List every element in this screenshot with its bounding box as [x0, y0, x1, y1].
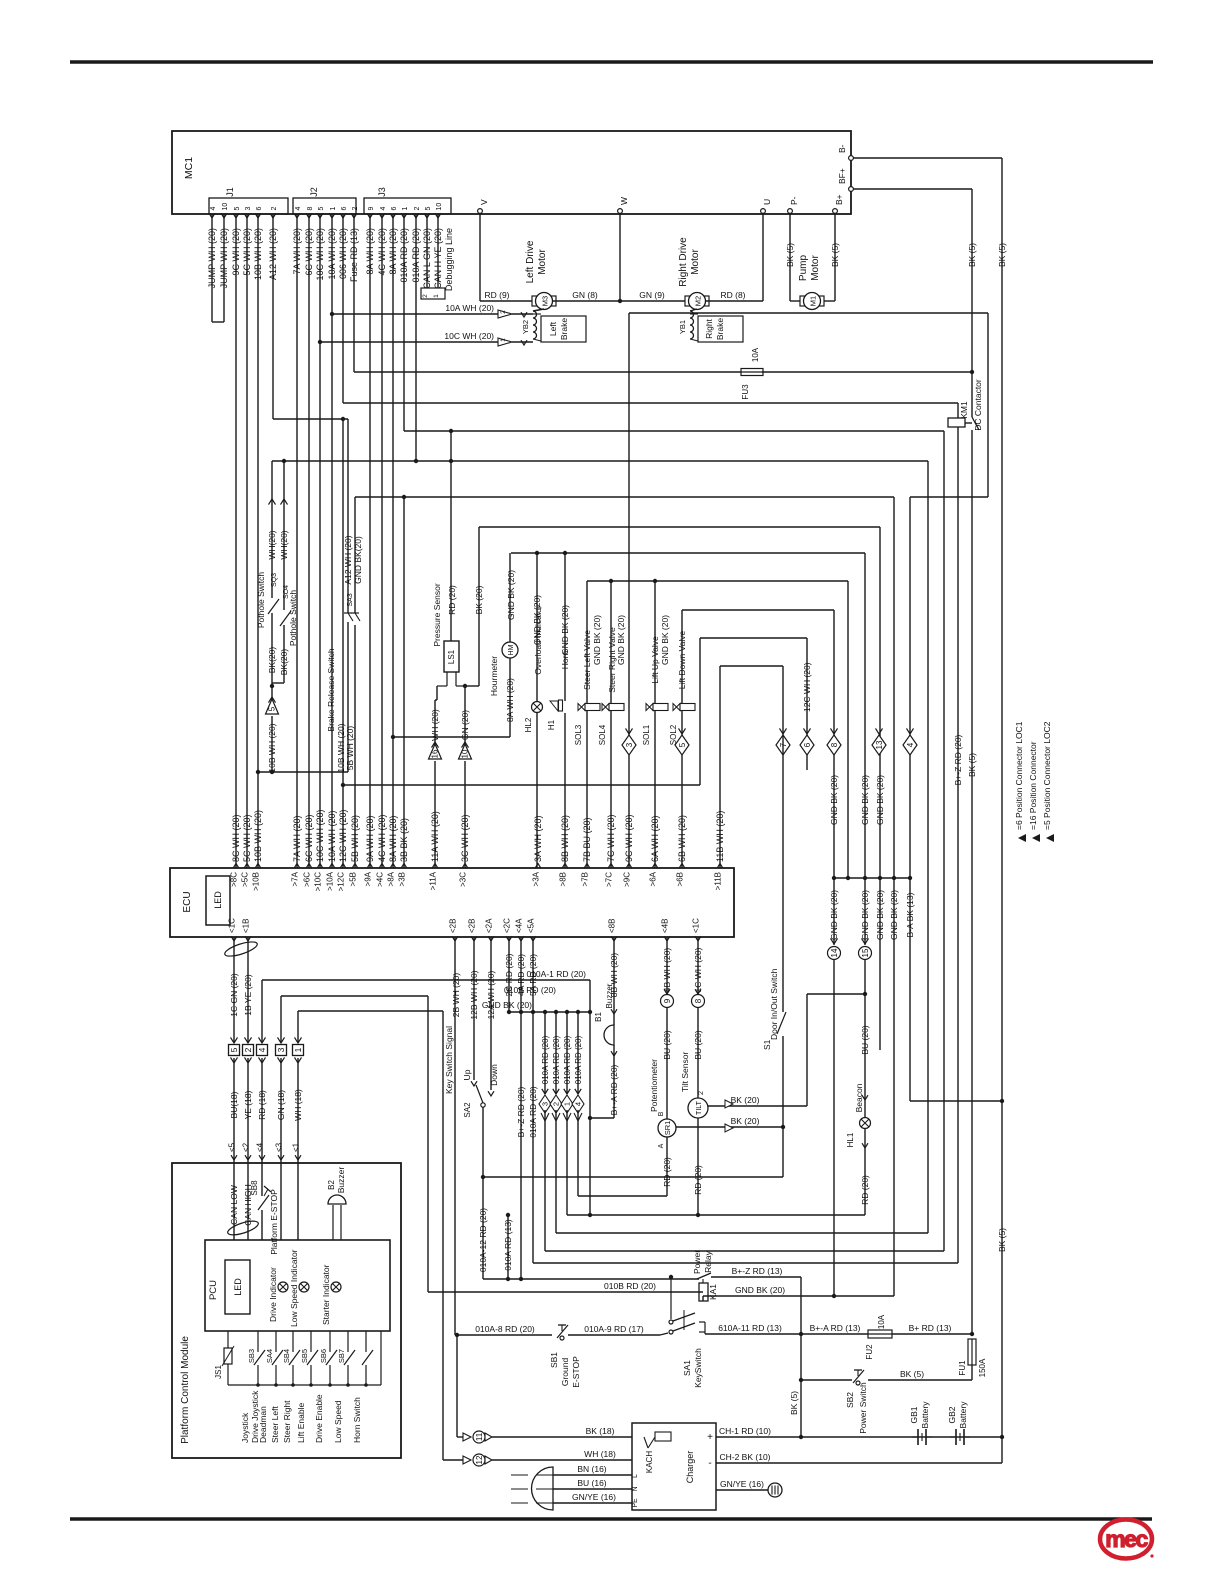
- wire 7A WH (20): [296, 214, 298, 868]
- wire BK (20) to LS1: [478, 527, 480, 686]
- svg-text:BK (5): BK (5): [789, 1391, 799, 1415]
- svg-text:BU (16): BU (16): [577, 1478, 606, 1488]
- svg-text:Left: Left: [548, 321, 558, 336]
- wire CAN H YE (20): [437, 214, 439, 288]
- wire U terminal: [762, 214, 764, 301]
- svg-text:mec: mec: [1105, 1526, 1148, 1552]
- J1 pins: [209, 213, 215, 218]
- left brake YB2 coil: [533, 311, 537, 339]
- wire 10C WH (20) to brake conn 1: [320, 341, 498, 343]
- svg-text:>7B: >7B: [581, 872, 590, 886]
- wire P- to M1: [789, 214, 791, 301]
- wire 010A RD (20) J3-1: [403, 214, 405, 431]
- J2 pins: [294, 213, 300, 218]
- connector 7: [776, 735, 790, 755]
- svg-text:>6B: >6B: [676, 872, 685, 886]
- svg-text:10B WH (20): 10B WH (20): [267, 723, 277, 772]
- ECU top pins: [233, 864, 239, 869]
- connector 15: [864, 878, 866, 945]
- wire GND BK (20) to PCM: [298, 1010, 443, 1012]
- svg-text:<8B: <8B: [608, 919, 617, 933]
- svg-text:>10C: >10C: [314, 872, 323, 892]
- wire BF+ BK(5): [853, 188, 972, 190]
- svg-text:Battery: Battery: [958, 1401, 968, 1429]
- svg-text:GND BK (20): GND BK (20): [860, 890, 870, 940]
- svg-text:SOL3: SOL3: [574, 724, 583, 745]
- svg-text:<2A: <2A: [485, 918, 494, 933]
- square connectors 5 2 4 3 1: [229, 1045, 240, 1056]
- svg-text:>9C: >9C: [623, 872, 632, 887]
- wire conn6 to beacon: [807, 993, 865, 995]
- svg-text:CH-2 BK (10): CH-2 BK (10): [719, 1452, 770, 1462]
- svg-text:3: 3: [276, 1047, 286, 1052]
- svg-text:HM: HM: [508, 644, 515, 655]
- svg-text:>4C: >4C: [376, 872, 385, 887]
- svg-text:GN/YE (16): GN/YE (16): [720, 1479, 764, 1489]
- wire 006 WH to B+Z: [343, 402, 958, 404]
- svg-text:4: 4: [210, 207, 217, 211]
- key switch signal to SB1: [455, 1334, 552, 1336]
- wire 010A-1 RD (20): [262, 979, 590, 981]
- connector 11: [456, 1335, 458, 1437]
- platform switches: [257, 1331, 259, 1352]
- svg-text:LED: LED: [213, 891, 223, 909]
- wire return conn3 run: [544, 1110, 546, 1251]
- svg-text:BK (20): BK (20): [731, 1095, 760, 1105]
- wire 10A WH (20): [331, 214, 333, 868]
- MC1 terminal V: [478, 209, 483, 214]
- svg-text:BK (20): BK (20): [731, 1116, 760, 1126]
- wire 010B RD to KA1 coil: [428, 1291, 703, 1293]
- svg-text:Starter Indicator: Starter Indicator: [321, 1264, 331, 1325]
- svg-text:GND BK (20): GND BK (20): [532, 595, 542, 645]
- svg-text:A12 WH (20): A12 WH (20): [343, 535, 353, 584]
- left drive motor M3: [532, 296, 556, 306]
- svg-text:3C WH (20): 3C WH (20): [460, 814, 470, 862]
- svg-text:E-STOP: E-STOP: [571, 1356, 581, 1388]
- switch SA2 up/down: [473, 937, 475, 1080]
- svg-text:B+-Z RD (20): B+-Z RD (20): [953, 734, 963, 785]
- wire W terminal: [619, 214, 621, 301]
- svg-text:KA1: KA1: [708, 1284, 718, 1300]
- pothole switch SQ4: [283, 461, 285, 610]
- svg-text:8: 8: [830, 742, 839, 747]
- wire 010A-12 RD (20): [482, 1177, 484, 1279]
- svg-text:SB7: SB7: [337, 1349, 346, 1363]
- svg-text:U: U: [762, 199, 772, 205]
- wire 1C GN (20): [233, 937, 235, 1042]
- wire 6C WH (20): [308, 214, 310, 868]
- svg-text:Power: Power: [692, 1250, 702, 1274]
- wire 12C WH (20): [342, 419, 344, 868]
- wire CAN L GN (20): [426, 214, 428, 288]
- wire 3B BK (20): [403, 497, 405, 868]
- svg-text:Low Speed Indicator: Low Speed Indicator: [289, 1249, 299, 1327]
- svg-text:2: 2: [243, 1047, 253, 1052]
- svg-text:J2: J2: [309, 187, 319, 197]
- connector 13: [872, 735, 886, 755]
- wire KA1 coil top: [702, 1279, 704, 1283]
- svg-text:3: 3: [625, 742, 634, 747]
- svg-text:B+-Z RD (20): B+-Z RD (20): [516, 1086, 526, 1137]
- svg-text:<2B: <2B: [449, 919, 458, 933]
- connector 14: [833, 878, 835, 945]
- wire GND bus hourmeter row: [511, 552, 865, 554]
- wire 8A WH (20): [392, 214, 394, 868]
- svg-text:Low Speed: Low Speed: [333, 1400, 343, 1443]
- connector 4 right: [903, 735, 917, 755]
- svg-text:>12C: >12C: [337, 872, 346, 892]
- svg-text:Steer Right: Steer Right: [282, 1400, 292, 1443]
- svg-text:HL2: HL2: [524, 717, 533, 732]
- horn switch column: [365, 1331, 367, 1352]
- svg-text:10: 10: [461, 749, 470, 758]
- svg-text:BK(20): BK(20): [279, 649, 289, 676]
- svg-text:SB1: SB1: [549, 1352, 559, 1368]
- svg-text:M2: M2: [694, 296, 703, 306]
- wire A12 WH (20): [272, 214, 274, 419]
- svg-text:V: V: [479, 199, 489, 205]
- svg-text:5: 5: [425, 207, 432, 211]
- svg-text:12B WH (20): 12B WH (20): [469, 970, 479, 1019]
- wire BK (20) LS1 run: [479, 526, 880, 528]
- svg-text:LED: LED: [233, 1278, 243, 1296]
- svg-text:9C WH (20): 9C WH (20): [624, 814, 634, 862]
- svg-text:5: 5: [268, 706, 277, 711]
- MEC logo: [1100, 1520, 1152, 1559]
- svg-text:GND BK (20): GND BK (20): [560, 605, 570, 655]
- ECU LED box: [206, 876, 230, 925]
- svg-text:6: 6: [391, 207, 398, 211]
- svg-text:3: 3: [245, 207, 252, 211]
- connector 12: [442, 1454, 444, 1460]
- wire 5C WH (20): [246, 214, 248, 868]
- svg-text:Motor: Motor: [810, 255, 821, 281]
- wire SR1 BK (20): [676, 1126, 783, 1128]
- wire WH to PCU: [297, 1163, 299, 1240]
- svg-text:FU3: FU3: [741, 384, 750, 400]
- svg-text:KACH: KACH: [645, 1451, 654, 1473]
- wire B- BK(5): [853, 157, 1002, 159]
- svg-text:>3C: >3C: [459, 872, 468, 887]
- wire 010B RD (20): [281, 995, 428, 997]
- svg-text:6C WH (20): 6C WH (20): [304, 814, 314, 862]
- svg-text:<1C: <1C: [692, 918, 701, 933]
- svg-text:1B YE (20): 1B YE (20): [243, 974, 253, 1016]
- wire 4A RD (20): [520, 937, 522, 1279]
- svg-text:HL1: HL1: [846, 1132, 855, 1147]
- svg-text:9A WH (20): 9A WH (20): [365, 815, 375, 862]
- svg-text:3A WH (20): 3A WH (20): [533, 815, 543, 862]
- svg-text:Pothole Switch: Pothole Switch: [256, 572, 266, 628]
- svg-text:Brake: Brake: [715, 318, 725, 340]
- fuse FU3 10A: [741, 369, 763, 376]
- svg-text:RD (18): RD (18): [257, 1090, 267, 1120]
- svg-text:BK (20): BK (20): [474, 585, 484, 614]
- svg-text:GND BK (20): GND BK (20): [875, 775, 885, 825]
- beacon HL1: [864, 959, 866, 1118]
- svg-text:SQ3: SQ3: [271, 573, 278, 587]
- svg-text:M3: M3: [541, 296, 550, 306]
- svg-text:BK (5): BK (5): [830, 243, 840, 267]
- svg-text:2C RD (20): 2C RD (20): [504, 953, 514, 996]
- wire 2C RD (20): [508, 937, 510, 1012]
- wire GN(9) W to M2: [620, 300, 688, 302]
- svg-text:J3: J3: [377, 187, 387, 197]
- svg-text:Battery: Battery: [920, 1401, 930, 1429]
- svg-text:10A WH (20): 10A WH (20): [445, 303, 494, 313]
- svg-text:SB3: SB3: [247, 1349, 256, 1363]
- wire 1B YE (20): [247, 937, 249, 1042]
- svg-text:15: 15: [861, 948, 870, 957]
- svg-text:010B RD (20): 010B RD (20): [604, 1281, 656, 1291]
- wire return conn4 to SR1: [577, 1110, 579, 1196]
- svg-text:=5 Position Connector LOC2: =5 Position Connector LOC2: [1042, 721, 1052, 830]
- svg-text:J1: J1: [225, 187, 235, 197]
- svg-text:10C WH (20): 10C WH (20): [444, 331, 494, 341]
- svg-text:Right Drive: Right Drive: [678, 237, 689, 287]
- svg-text:H1: H1: [547, 719, 556, 730]
- svg-text:FU2: FU2: [865, 1344, 874, 1360]
- svg-text:4A RD (20): 4A RD (20): [516, 954, 526, 996]
- wire 2B WH key switch signal: [454, 937, 456, 1335]
- svg-text:PE: PE: [632, 1498, 639, 1508]
- svg-text:GND BK (20): GND BK (20): [616, 615, 626, 665]
- svg-text:Tilt Sensor: Tilt Sensor: [680, 1052, 690, 1092]
- svg-text:010A-8 RD (20): 010A-8 RD (20): [475, 1324, 535, 1334]
- svg-text:MC1: MC1: [183, 157, 195, 179]
- svg-text:GND BK (20): GND BK (20): [660, 615, 670, 665]
- wire 010A RD run 2: [272, 460, 928, 462]
- svg-text:7B BU (20): 7B BU (20): [582, 817, 592, 862]
- wire 10B WH (20): [257, 214, 259, 868]
- wire 006 WH (20): [342, 214, 344, 403]
- svg-text:4B WH (20): 4B WH (20): [662, 948, 672, 993]
- fuse FU2 10A: [868, 1330, 892, 1338]
- wire 010A RD run 1: [404, 430, 944, 432]
- wire return conn2 run: [555, 1110, 557, 1233]
- wire GN(8) M3 to W: [553, 300, 620, 302]
- harness wires to platform: [233, 1058, 235, 1163]
- svg-text:SOL1: SOL1: [642, 724, 651, 745]
- svg-text:010A RD (20): 010A RD (20): [541, 1035, 550, 1084]
- svg-text:Steer Left: Steer Left: [270, 1406, 280, 1443]
- wire horizontal 1215: [567, 1214, 865, 1216]
- svg-text:-: -: [708, 1458, 711, 1469]
- svg-text:9: 9: [368, 207, 375, 211]
- svg-text:>3A: >3A: [532, 871, 541, 886]
- svg-text:GND BK (20): GND BK (20): [829, 775, 839, 825]
- svg-text:PCU: PCU: [208, 1280, 219, 1300]
- wire GND BK 894 to KA1: [893, 878, 895, 1296]
- svg-text:5A RD (20): 5A RD (20): [528, 954, 538, 996]
- svg-text:GND BK (20): GND BK (20): [506, 570, 516, 620]
- svg-text:14: 14: [830, 948, 839, 957]
- wire 9C WH (20): [235, 214, 237, 868]
- svg-text:12: 12: [475, 1455, 484, 1464]
- svg-text:8: 8: [694, 998, 703, 1003]
- svg-text:SOL4: SOL4: [598, 724, 607, 745]
- svg-text:2: 2: [552, 1102, 561, 1106]
- svg-text:010A RD (20): 010A RD (20): [552, 1035, 561, 1084]
- svg-text:Power Switch: Power Switch: [858, 1382, 868, 1434]
- svg-text:W: W: [619, 197, 629, 205]
- wire B+ RD (13): [892, 1333, 972, 1335]
- connector J3: [364, 198, 451, 214]
- svg-text:>11B: >11B: [714, 872, 723, 890]
- charger box: [632, 1423, 716, 1510]
- wire 11B to door switch: [719, 666, 721, 868]
- svg-text:Platform E-STOP: Platform E-STOP: [269, 1189, 279, 1255]
- svg-text:CAN LOW: CAN LOW: [229, 1185, 239, 1225]
- svg-text:10A: 10A: [751, 347, 760, 362]
- svg-text:Buzzer: Buzzer: [336, 1167, 346, 1194]
- svg-text:M1: M1: [809, 296, 818, 306]
- wire RD(8) M2 to U: [706, 300, 763, 302]
- wire GND bus valve row: [587, 580, 848, 582]
- svg-text:SA1: SA1: [682, 1360, 692, 1376]
- wire FU3 fuse feed: [354, 371, 742, 373]
- svg-text:8B WH (20): 8B WH (20): [560, 815, 570, 862]
- svg-text:BU(18): BU(18): [229, 1091, 239, 1118]
- wire return 5A run: [533, 1262, 958, 1264]
- svg-text:KeySwitch: KeySwitch: [693, 1348, 703, 1388]
- svg-text:Brake: Brake: [559, 318, 569, 340]
- debugging line connector: [421, 288, 445, 299]
- wire 10C WH (20): [319, 214, 321, 868]
- svg-text:GND BK(20): GND BK(20): [353, 536, 363, 584]
- branch wires 010A RD with connectors 3 2 1 4: [544, 1012, 546, 1094]
- svg-text:S1: S1: [762, 1039, 772, 1050]
- svg-text:L: L: [632, 1474, 639, 1478]
- svg-text:BK (5): BK (5): [997, 243, 1007, 267]
- svg-text:Potentiometer: Potentiometer: [649, 1059, 659, 1112]
- svg-text:4: 4: [380, 207, 387, 211]
- buzzer B1: [613, 937, 615, 1025]
- svg-text:WH (18): WH (18): [584, 1449, 616, 1459]
- wire B+-A RD (13): [801, 1333, 868, 1335]
- svg-text:GND BK (20): GND BK (20): [829, 890, 839, 940]
- svg-text:Pressure Sensor: Pressure Sensor: [432, 583, 442, 646]
- svg-text:10A WH (20): 10A WH (20): [327, 810, 337, 862]
- platform E-STOP wire: [280, 1163, 282, 1240]
- svg-text:GB2: GB2: [947, 1406, 957, 1423]
- wire horizontal 1177: [483, 1176, 783, 1178]
- svg-text:BK (18): BK (18): [586, 1426, 615, 1436]
- svg-text:B: B: [658, 1111, 665, 1116]
- svg-text:5: 5: [229, 1047, 239, 1052]
- J3 pins: [367, 213, 373, 218]
- svg-text:12C WH (20): 12C WH (20): [338, 809, 348, 862]
- svg-text:Beacon: Beacon: [854, 1083, 864, 1112]
- svg-text:BU (20): BU (20): [693, 1030, 703, 1059]
- svg-text:10: 10: [222, 203, 229, 211]
- svg-text:GB1: GB1: [909, 1406, 919, 1423]
- svg-text:Drive Indicator: Drive Indicator: [268, 1267, 278, 1322]
- svg-text:1: 1: [563, 1102, 572, 1106]
- svg-text:Horn Switch: Horn Switch: [352, 1397, 362, 1443]
- svg-text:3: 3: [541, 1102, 550, 1106]
- svg-text:010A-9 RD (17): 010A-9 RD (17): [584, 1324, 644, 1334]
- svg-text:Joystick: Joystick: [240, 1412, 250, 1443]
- joystick JS1: [227, 1331, 229, 1348]
- svg-text:WH(20): WH(20): [267, 530, 277, 559]
- GND bus lower: [834, 877, 910, 879]
- svg-text:Lift Enable: Lift Enable: [296, 1403, 306, 1443]
- svg-text:9: 9: [663, 998, 672, 1003]
- svg-text:5: 5: [318, 207, 325, 211]
- svg-text:610A-11 RD (13): 610A-11 RD (13): [718, 1323, 782, 1333]
- svg-text:SB6: SB6: [319, 1349, 328, 1363]
- svg-text:Ground: Ground: [560, 1358, 570, 1387]
- charger ground GN/YE: [716, 1489, 768, 1491]
- svg-text:B1: B1: [594, 1012, 603, 1022]
- svg-text:Up: Up: [462, 1069, 472, 1080]
- plug wires: [553, 1474, 632, 1476]
- connector 3 diamond: [628, 313, 630, 735]
- svg-text:FU1: FU1: [958, 1360, 967, 1376]
- svg-text:SB4: SB4: [282, 1349, 291, 1363]
- svg-text:010A-12 RD (20): 010A-12 RD (20): [478, 1208, 488, 1272]
- svg-text:GND BK (20): GND BK (20): [875, 890, 885, 940]
- svg-text:6: 6: [803, 742, 812, 747]
- svg-text:BF+: BF+: [837, 168, 847, 184]
- svg-text:GN/YE (16): GN/YE (16): [572, 1492, 616, 1502]
- svg-text:<3: <3: [275, 1142, 284, 1152]
- MC1 terminal P-: [788, 209, 793, 214]
- svg-text:Deadman: Deadman: [258, 1406, 268, 1443]
- switch SB8: [261, 1163, 263, 1196]
- svg-text:>10B: >10B: [252, 872, 261, 891]
- svg-text:KM1: KM1: [959, 401, 969, 419]
- svg-text:2: 2: [698, 1091, 705, 1095]
- svg-text:7A WH (20): 7A WH (20): [292, 815, 302, 862]
- hourmeter HM: [502, 642, 518, 658]
- svg-text:<2: <2: [242, 1142, 251, 1152]
- svg-text:11A WH (20): 11A WH (20): [430, 811, 440, 862]
- svg-text:5B WH (20): 5B WH (20): [350, 815, 360, 862]
- svg-text:RD (9): RD (9): [484, 290, 509, 300]
- svg-text:1: 1: [330, 207, 337, 211]
- svg-text:GND BK (20): GND BK (20): [735, 1285, 785, 1295]
- svg-text:4C WH (20): 4C WH (20): [377, 814, 387, 862]
- svg-text:JS1: JS1: [214, 1365, 223, 1379]
- svg-text:4: 4: [906, 742, 915, 747]
- svg-text:>5C: >5C: [241, 872, 250, 887]
- svg-text:WH (18): WH (18): [293, 1089, 303, 1121]
- svg-text:B+-A RD (13): B+-A RD (13): [810, 1323, 861, 1333]
- connector 8: [827, 735, 841, 755]
- svg-text:<2B: <2B: [468, 919, 477, 933]
- controller MC1: [172, 131, 851, 214]
- svg-text:010A RD (13): 010A RD (13): [503, 1219, 513, 1271]
- svg-text:2: 2: [422, 294, 429, 298]
- wire B+-Z RD (20): [957, 430, 959, 1263]
- svg-text:>6C: >6C: [303, 872, 312, 887]
- svg-text:N: N: [632, 1486, 639, 1491]
- svg-text:+: +: [707, 1432, 713, 1443]
- svg-text:>8C: >8C: [230, 872, 239, 887]
- svg-text:=16 Position Connector: =16 Position Connector: [1028, 741, 1038, 830]
- svg-text:B+ RD (13): B+ RD (13): [909, 1323, 952, 1333]
- svg-text:Debugging Line: Debugging Line: [444, 228, 454, 291]
- pump motor M1: [800, 296, 824, 306]
- svg-text:<5A: <5A: [527, 918, 536, 933]
- svg-text:GN (9): GN (9): [639, 290, 665, 300]
- svg-text:>8B: >8B: [559, 872, 568, 886]
- svg-text:RD (20): RD (20): [662, 1157, 672, 1187]
- svg-text:Key Switch Signal: Key Switch Signal: [444, 1026, 454, 1094]
